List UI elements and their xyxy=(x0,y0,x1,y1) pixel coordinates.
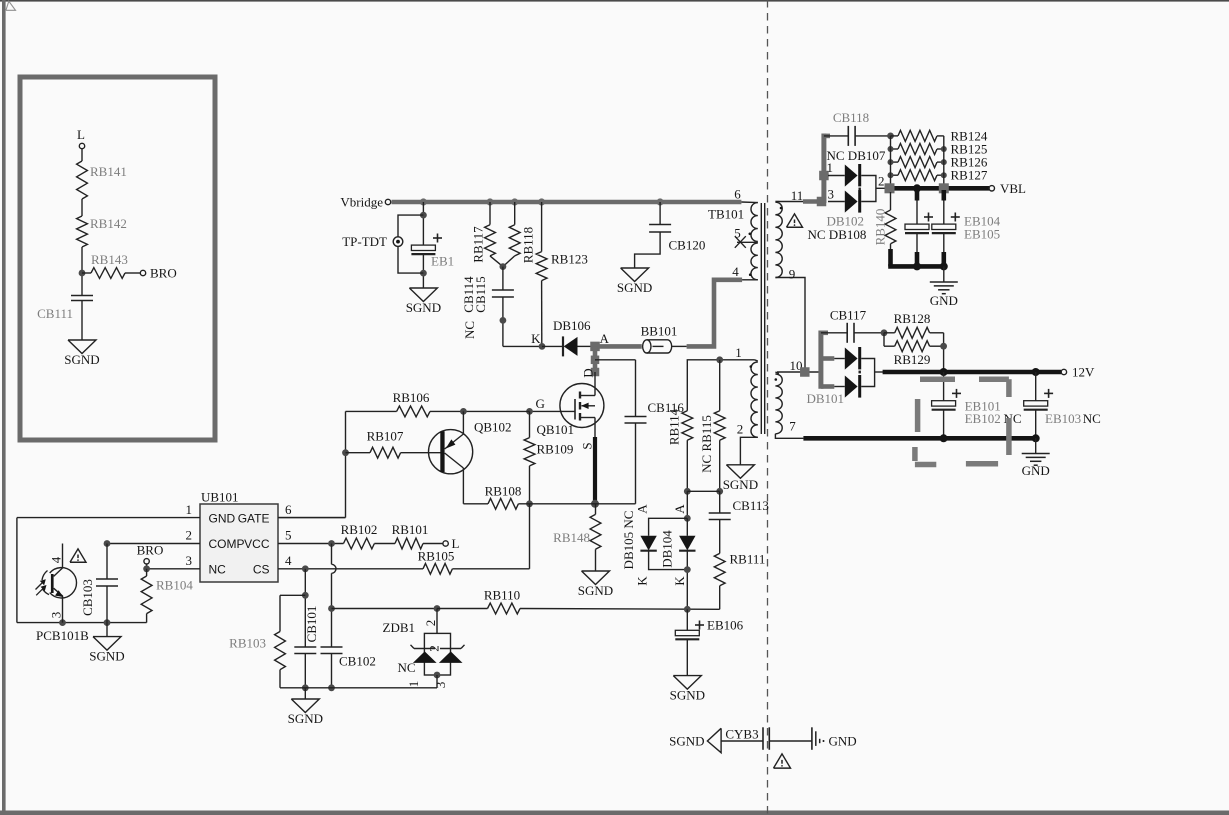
svg-text:G: G xyxy=(536,396,545,411)
svg-text:1: 1 xyxy=(186,502,193,517)
svg-text:K: K xyxy=(672,576,687,586)
svg-text:RB111: RB111 xyxy=(730,552,766,567)
svg-text:6: 6 xyxy=(285,502,292,517)
svg-text:3: 3 xyxy=(828,187,835,202)
svg-text:NC RB115: NC RB115 xyxy=(699,415,714,473)
svg-text:RB104: RB104 xyxy=(156,578,193,593)
svg-text:D: D xyxy=(581,368,596,377)
svg-text:12V: 12V xyxy=(1072,365,1095,380)
svg-text:RB109: RB109 xyxy=(537,442,574,457)
svg-text:SGND: SGND xyxy=(669,734,704,749)
svg-text:CB118: CB118 xyxy=(833,110,869,125)
svg-text:SGND: SGND xyxy=(723,477,758,492)
svg-text:CB120: CB120 xyxy=(669,238,706,253)
svg-text:Vbridge: Vbridge xyxy=(340,195,383,210)
svg-text:RB102: RB102 xyxy=(341,522,378,537)
svg-text:1: 1 xyxy=(735,345,742,360)
svg-text:CB102: CB102 xyxy=(339,654,376,669)
svg-text:BRO: BRO xyxy=(150,266,177,281)
svg-text:RB110: RB110 xyxy=(484,588,520,603)
svg-text:RB143: RB143 xyxy=(91,252,128,267)
svg-text:S: S xyxy=(580,442,595,449)
svg-text:DB105 NC: DB105 NC xyxy=(621,511,636,570)
svg-text:CB117: CB117 xyxy=(830,308,867,323)
svg-text:NC: NC xyxy=(209,563,227,577)
svg-text:RB127: RB127 xyxy=(951,168,988,183)
svg-text:SGND: SGND xyxy=(670,688,705,703)
svg-text:DB101: DB101 xyxy=(807,391,845,406)
svg-text:NC DB108: NC DB108 xyxy=(808,227,867,242)
svg-text:CB111: CB111 xyxy=(37,306,73,321)
svg-text:6: 6 xyxy=(734,187,741,202)
svg-text:DB106: DB106 xyxy=(553,318,591,333)
svg-text:NC: NC xyxy=(462,321,477,339)
svg-text:EB103: EB103 xyxy=(1045,411,1081,426)
svg-text:RB117: RB117 xyxy=(471,226,486,263)
svg-text:5: 5 xyxy=(734,226,741,241)
svg-text:3: 3 xyxy=(49,612,64,619)
svg-text:CB101: CB101 xyxy=(304,606,319,643)
svg-text:ZDB1: ZDB1 xyxy=(383,620,416,635)
svg-text:4: 4 xyxy=(49,556,64,563)
svg-text:COMP: COMP xyxy=(209,537,245,551)
svg-text:CS: CS xyxy=(253,563,270,577)
svg-text:EB106: EB106 xyxy=(707,618,744,633)
svg-text:NC: NC xyxy=(397,660,415,675)
svg-text:RB141: RB141 xyxy=(90,164,127,179)
svg-text:RB123: RB123 xyxy=(551,252,588,267)
svg-text:2: 2 xyxy=(878,174,885,189)
svg-text:GND: GND xyxy=(209,511,236,525)
svg-text:RB114: RB114 xyxy=(666,408,681,445)
svg-text:SGND: SGND xyxy=(64,352,99,367)
svg-text:K: K xyxy=(531,331,541,346)
svg-text:EB105: EB105 xyxy=(964,226,1000,241)
svg-text:RB129: RB129 xyxy=(894,352,931,367)
svg-text:RB106: RB106 xyxy=(393,390,430,405)
svg-text:RB148: RB148 xyxy=(553,530,590,545)
svg-text:2: 2 xyxy=(423,620,438,627)
svg-text:RB105: RB105 xyxy=(418,549,455,564)
svg-text:GND: GND xyxy=(1022,463,1050,478)
svg-text:9: 9 xyxy=(789,267,796,282)
svg-text:BB101: BB101 xyxy=(641,324,678,339)
svg-text:SGND: SGND xyxy=(578,583,613,598)
svg-text:3: 3 xyxy=(433,682,448,689)
svg-text:RB140: RB140 xyxy=(873,209,888,246)
svg-text:1: 1 xyxy=(406,681,421,688)
svg-text:RB118: RB118 xyxy=(521,227,536,263)
svg-text:NC DB107: NC DB107 xyxy=(827,148,886,163)
svg-text:K: K xyxy=(634,576,649,586)
svg-text:TP-TDT: TP-TDT xyxy=(342,234,387,249)
svg-text:NC: NC xyxy=(1083,411,1101,426)
svg-text:5: 5 xyxy=(285,528,292,543)
svg-text:GND: GND xyxy=(829,734,857,749)
svg-text:11: 11 xyxy=(791,188,804,203)
svg-text:DB104: DB104 xyxy=(659,530,674,568)
svg-text:VBL: VBL xyxy=(1000,181,1026,196)
svg-text:TB101: TB101 xyxy=(708,207,744,222)
svg-text:UB101: UB101 xyxy=(201,490,239,505)
svg-text:QB102: QB102 xyxy=(474,420,512,435)
svg-text:RB101: RB101 xyxy=(392,522,429,537)
svg-text:PCB101B: PCB101B xyxy=(36,628,89,643)
svg-text:RB128: RB128 xyxy=(894,311,931,326)
svg-text:BRO: BRO xyxy=(137,543,164,558)
svg-text:L: L xyxy=(77,127,85,142)
svg-text:EB102: EB102 xyxy=(965,411,1001,426)
svg-text:VCC: VCC xyxy=(244,537,270,551)
svg-text:GND: GND xyxy=(930,293,958,308)
svg-text:4: 4 xyxy=(285,553,292,568)
svg-text:SGND: SGND xyxy=(406,300,441,315)
svg-text:2: 2 xyxy=(427,645,442,652)
svg-text:2: 2 xyxy=(737,422,744,437)
svg-text:EB1: EB1 xyxy=(431,254,454,269)
svg-text:CB113: CB113 xyxy=(733,498,769,513)
svg-text:SGND: SGND xyxy=(288,711,323,726)
svg-text:A: A xyxy=(634,504,649,514)
svg-text:RB107: RB107 xyxy=(367,429,404,444)
svg-text:SGND: SGND xyxy=(89,649,124,664)
svg-text:CB103: CB103 xyxy=(80,579,95,616)
svg-text:2: 2 xyxy=(186,528,193,543)
svg-text:CYB3: CYB3 xyxy=(725,727,758,742)
svg-text:4: 4 xyxy=(732,264,739,279)
svg-text:A: A xyxy=(600,331,610,346)
svg-text:A: A xyxy=(672,504,687,514)
svg-text:7: 7 xyxy=(789,419,796,434)
svg-text:QB101: QB101 xyxy=(537,422,575,437)
svg-text:3: 3 xyxy=(186,553,193,568)
svg-text:RB108: RB108 xyxy=(485,484,522,499)
svg-text:GATE: GATE xyxy=(238,511,270,525)
svg-text:RB103: RB103 xyxy=(229,636,266,651)
svg-text:SGND: SGND xyxy=(617,280,652,295)
svg-text:RB142: RB142 xyxy=(90,216,127,231)
svg-text:CB115: CB115 xyxy=(473,276,488,312)
